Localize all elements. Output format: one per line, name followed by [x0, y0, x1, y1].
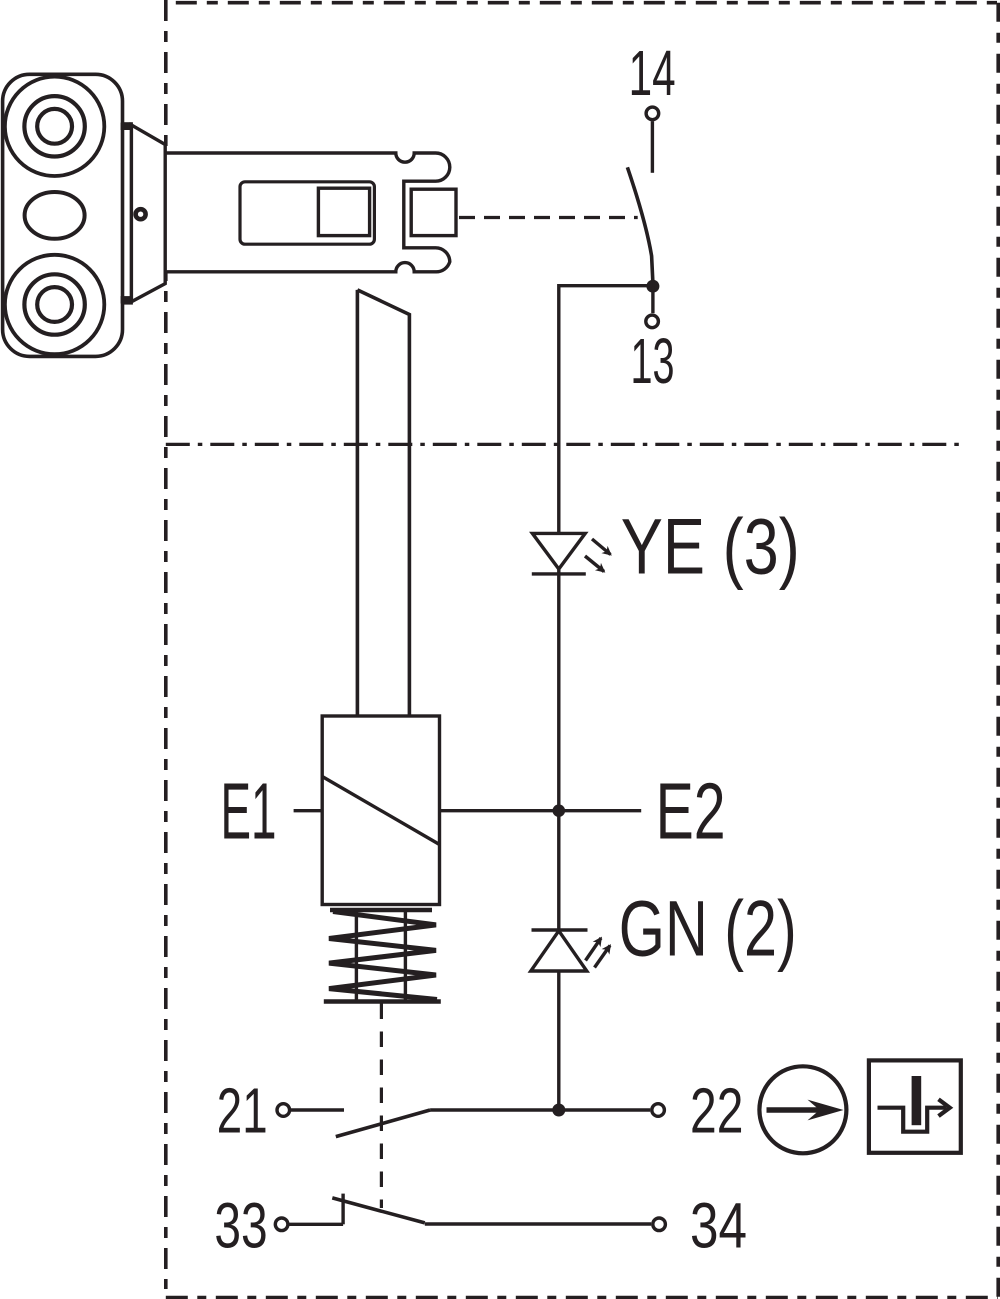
wire main vertical	[559, 286, 653, 1110]
wire junction to terminal 13	[651, 286, 654, 313]
wire from terminal 33	[289, 1223, 343, 1226]
svg-text:14: 14	[629, 37, 676, 109]
LED YE cathode bar	[532, 572, 586, 575]
LED GN light arrow 1	[586, 938, 602, 961]
contact blade 21-22	[336, 1110, 430, 1137]
actuator flange trapezoid	[131, 125, 165, 302]
terminal 21	[277, 1104, 290, 1117]
spring top plate	[330, 908, 432, 913]
contact blade 13-14	[627, 167, 653, 283]
wire solenoid to E2	[440, 809, 642, 812]
terminal 14	[646, 107, 659, 120]
enclosure dash-dot frame top	[166, 1, 997, 5]
enclosure dash-dot frame right	[996, 3, 1000, 1299]
svg-text:34: 34	[690, 1189, 747, 1261]
spring guide rods	[356, 908, 405, 1000]
positive-break symbol box	[869, 1060, 961, 1152]
terminal 22	[652, 1104, 665, 1117]
actuator roller top	[5, 77, 104, 176]
LED YE anode triangle	[532, 533, 585, 569]
actuator middle ellipse	[25, 192, 85, 239]
svg-text:GN (2): GN (2)	[619, 883, 797, 972]
terminal 33	[275, 1218, 288, 1231]
junction node at E2 wire	[553, 804, 566, 817]
tongue inner window	[240, 182, 374, 244]
plunger bar	[357, 290, 409, 716]
wire blade to terminal 22	[430, 1108, 650, 1111]
wire E1 lead	[294, 809, 323, 812]
LED YE light arrow 2	[585, 556, 604, 572]
actuator mounting strip	[121, 123, 132, 304]
spring bottom plate	[324, 999, 441, 1004]
svg-text:22: 22	[690, 1075, 743, 1147]
actuator tongue	[165, 153, 450, 272]
LED GN anode triangle	[531, 931, 587, 971]
actuator body	[3, 74, 123, 356]
wire blade to terminal 34	[425, 1222, 651, 1225]
wire from terminal 14	[651, 121, 654, 173]
wire from terminal 21	[291, 1108, 344, 1111]
mechanical link dashed line to contact 13-14	[459, 216, 638, 219]
actuator pivot	[136, 209, 146, 219]
actuator roller bottom	[5, 255, 104, 354]
junction node at 21-22 wire	[552, 1104, 565, 1117]
solenoid coil E	[322, 716, 439, 905]
terminal 13	[646, 315, 659, 328]
junction node at 13	[646, 280, 659, 293]
svg-text:33: 33	[214, 1189, 267, 1261]
head/body divider dash-dot line	[166, 443, 964, 446]
LED GN cathode bar	[532, 928, 588, 931]
LED YE light arrow 1	[592, 539, 611, 555]
contact blade 33-34	[332, 1198, 425, 1223]
enclosure dash-dot frame left	[164, 0, 168, 1289]
svg-text:YE (3): YE (3)	[621, 502, 800, 591]
svg-text:E2: E2	[656, 767, 726, 856]
enclosure dash-dot frame bottom	[166, 1296, 998, 1299]
svg-text:21: 21	[217, 1075, 268, 1147]
actuator head block	[411, 189, 456, 235]
spring zigzag	[329, 912, 437, 1000]
direction-of-actuation symbol circle	[759, 1066, 846, 1153]
mechanical link dashed line to contacts	[380, 1004, 383, 1209]
LED GN light arrow 2	[595, 946, 611, 968]
svg-text:E1: E1	[221, 767, 277, 856]
tongue inner block	[318, 188, 369, 235]
contact 33-34 drive hook	[341, 1194, 344, 1225]
terminal 34	[653, 1218, 666, 1231]
svg-text:13: 13	[631, 325, 675, 397]
